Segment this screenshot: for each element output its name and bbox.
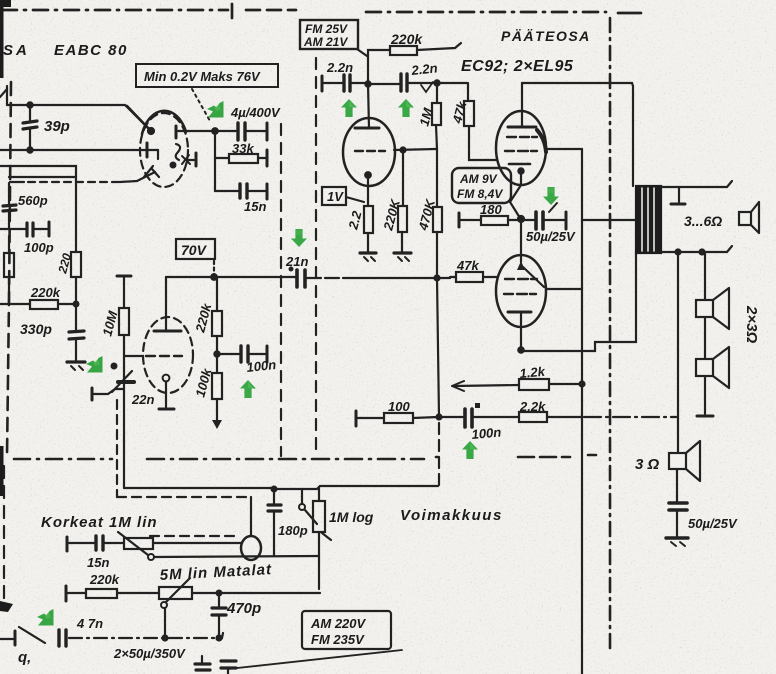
capacitor 470p: [212, 591, 261, 641]
svg-text:50µ/25V: 50µ/25V: [526, 229, 576, 244]
speaker LS2: [696, 288, 729, 329]
arrow marker 1: [207, 101, 224, 118]
speaker LS1 3...6ohm: [684, 202, 759, 233]
border frame: section divider x=316 dashed: [315, 58, 317, 456]
wire V2 grid row: [394, 148, 436, 153]
svg-text:AM 9V: AM 9V: [459, 172, 498, 186]
svg-text:Korkeat 1M lin: Korkeat 1M lin: [41, 514, 158, 531]
tube V4 EL95 upper: [496, 83, 546, 218]
svg-text:EABC 80: EABC 80: [54, 42, 128, 59]
svg-text:15n: 15n: [244, 199, 266, 214]
capacitor 21n: [285, 254, 308, 287]
speaker LS4 3ohm: [635, 441, 700, 481]
svg-text:3...6Ω: 3...6Ω: [684, 213, 722, 229]
svg-text:100: 100: [388, 399, 410, 414]
capacitor 180p: [268, 489, 308, 556]
svg-text:22n: 22n: [131, 392, 154, 407]
arrow marker 9: [37, 609, 54, 626]
svg-text:Voimakkuus: Voimakkuus: [400, 507, 503, 524]
arrow marker 7: [240, 380, 256, 398]
svg-text:FM 235V: FM 235V: [311, 632, 365, 647]
svg-text:50µ/25V: 50µ/25V: [688, 516, 738, 531]
ground symbol: [67, 362, 85, 370]
wire speaker bus x=705: [697, 252, 713, 416]
svg-text:70V: 70V: [181, 242, 208, 258]
svg-text:100n: 100n: [246, 357, 277, 375]
scan edge artifacts: [0, 0, 13, 612]
resistor 220k top: [368, 31, 461, 55]
svg-text:39p: 39p: [44, 118, 70, 135]
svg-text:330p: 330p: [20, 321, 52, 337]
wire B+ rail vertical x=582: [546, 149, 582, 674]
tube V2 EC92 triode: [343, 118, 395, 206]
arrow marker 3: [398, 99, 414, 117]
wire top-left y=105: [0, 86, 150, 153]
capacitor 100p: [0, 222, 54, 255]
resistor 1M vertical: [416, 80, 441, 149]
wire secondary top: [661, 181, 732, 204]
capacitor PSU bottom edge 2: [221, 661, 236, 674]
svg-text:Min 0.2V Maks 76V: Min 0.2V Maks 76V: [144, 69, 261, 84]
wire volume feed horizontal y=488: [124, 486, 438, 491]
svg-text:180p: 180p: [278, 523, 308, 538]
svg-text:220k: 220k: [390, 31, 423, 47]
border frame: horizontal dash-dot y=458: [14, 455, 596, 459]
capacitor 100n mid: [214, 346, 276, 375]
capacitor 100n coupling: [439, 403, 519, 442]
svg-text:AM 220V: AM 220V: [310, 616, 367, 631]
svg-text:560p: 560p: [18, 193, 48, 208]
wire signal row y=277: [166, 277, 497, 278]
resistor 47k vertical: [437, 83, 497, 160]
wire B+ top y=83: [522, 83, 633, 186]
capacitor 47n: [59, 616, 103, 646]
wire dashed x=439 lower: [438, 423, 440, 486]
resistor 220 vertical: [55, 251, 81, 331]
svg-text:SA: SA: [3, 42, 30, 59]
capacitor 15n tone: [67, 536, 124, 570]
potentiometer 1M log volume: [299, 487, 331, 589]
wire speaker bus x=678: [677, 252, 679, 453]
dashed link y=497: [117, 496, 248, 498]
svg-text:4µ/400V: 4µ/400V: [230, 105, 281, 120]
border frame: left dashed vertical: [7, 82, 11, 456]
svg-text:4 7n: 4 7n: [76, 616, 103, 631]
capacitor 15n: [215, 184, 267, 214]
capacitor 4u/400V: [215, 105, 281, 140]
dashed link y=535: [150, 535, 238, 537]
border frame: section divider x=281 dashed: [280, 124, 282, 456]
ground below 2.2: [360, 253, 376, 261]
node plate junction of V1: [176, 126, 218, 191]
resistor left edge vertical: [4, 236, 14, 304]
resistor 220k tone: [66, 586, 159, 601]
border frame: left lower dashed vertical: [3, 466, 5, 598]
transformer T1: [636, 186, 661, 253]
wire V5 plate to rail: [546, 288, 582, 290]
svg-text:1.2k: 1.2k: [519, 364, 546, 381]
svg-text:15n: 15n: [87, 555, 109, 570]
svg-text:FM 8,4V: FM 8,4V: [457, 187, 503, 201]
svg-text:FM 25V: FM 25V: [305, 22, 348, 36]
svg-text:470p: 470p: [226, 600, 261, 617]
potentiometer treble 1M: [118, 532, 241, 560]
arrow marker 5: [543, 187, 559, 205]
dashed lead into tube V1 bottom: [10, 172, 155, 182]
border frame: right dash-dot vertical: [609, 18, 612, 650]
tube V3 triode (dashed envelope): [143, 277, 193, 409]
capacitor 50u/25V upper: [521, 203, 576, 244]
capacitor 330p: [20, 321, 84, 361]
wire cathode return y=351: [521, 253, 636, 351]
pointer line to box: [228, 650, 402, 669]
wire bass wiper down: [163, 608, 168, 641]
svg-text:33k: 33k: [232, 141, 254, 156]
resistor 220k horizontal: [0, 285, 78, 309]
svg-text:AM 21V: AM 21V: [303, 35, 348, 49]
wire secondary bottom: [661, 246, 732, 255]
tube V1 internal electrodes: [127, 106, 196, 177]
annotation box AM 9V / FM 8.4V: [452, 168, 511, 203]
wire y=166 with corner at x=76: [0, 166, 76, 252]
annotation box AM 220V / FM 235V: [302, 611, 391, 649]
svg-text:2.2k: 2.2k: [519, 399, 546, 414]
speaker LS3: [696, 347, 729, 388]
svg-text:47k: 47k: [456, 258, 479, 273]
svg-text:100n: 100n: [471, 424, 502, 442]
svg-text:220k: 220k: [89, 572, 120, 587]
wire to transformer primary: [582, 219, 636, 221]
svg-text:2.2n: 2.2n: [410, 60, 438, 78]
svg-text:PÄÄTEOSA: PÄÄTEOSA: [501, 28, 591, 44]
svg-text:3 Ω: 3 Ω: [635, 456, 660, 473]
potentiometer bass 5M: [159, 578, 320, 608]
svg-text:EC92; 2×EL95: EC92; 2×EL95: [461, 58, 574, 75]
capacitor 39p: [23, 105, 70, 150]
resistor 2.2k row: [519, 399, 582, 422]
resistor 47k mid: [450, 258, 483, 282]
arrow marker 2: [341, 99, 357, 117]
arrow marker 6: [86, 356, 103, 373]
annotation box FM 25V / AM 21V: [300, 20, 367, 56]
capacitor 560p: [3, 177, 76, 229]
capacitor oval: [241, 497, 261, 560]
svg-text:21n: 21n: [285, 254, 308, 269]
resistor 2.2 cathode: [345, 206, 373, 252]
svg-text:2.2n: 2.2n: [326, 60, 353, 75]
resistor 33k: [215, 141, 267, 166]
wire dash-dot y=417 right: [584, 416, 678, 418]
resistor 100k vertical: [192, 366, 222, 429]
wire bottom y=638: [0, 627, 223, 645]
tube V5 EL95 lower: [496, 220, 546, 353]
svg-text:q‚: q‚: [18, 649, 31, 666]
svg-text:1M log: 1M log: [329, 509, 374, 525]
svg-text:180: 180: [480, 202, 502, 217]
resistor 180: [459, 202, 520, 227]
node cathode junction: [518, 216, 524, 222]
resistor 10M vertical: [99, 276, 143, 488]
border frame: top dash-dot line: [2, 4, 641, 18]
resistor 220K vertical: [380, 151, 407, 252]
wire y=556: [154, 556, 319, 557]
capacitor 2.2n right: [369, 60, 438, 92]
resistor 1.2k feedback row: [452, 364, 585, 391]
resistor 100 row: [356, 399, 438, 426]
wire long vertical x=438: [435, 276, 442, 420]
ground below electrolytic: [666, 538, 688, 546]
svg-text:220k: 220k: [30, 285, 61, 300]
svg-text:2×3Ω: 2×3Ω: [743, 305, 760, 343]
resistor 470K vertical: [415, 149, 442, 278]
svg-text:100p: 100p: [24, 240, 54, 255]
wire y=150 to tube pin: [0, 143, 158, 159]
mechanical gang dashed line: [116, 400, 118, 497]
wire plate feed V2: [365, 55, 370, 128]
annotation box Min 0.2V Maks 76V: [136, 64, 278, 121]
capacitor PSU bottom edge 1: [195, 656, 210, 670]
capacitor 50u/25V electrolytic lower: [669, 469, 738, 536]
resistor 220k vertical mid: [192, 277, 222, 373]
svg-text:1V: 1V: [327, 189, 344, 204]
svg-text:2×50µ/350V: 2×50µ/350V: [113, 646, 186, 661]
green annotation arrows: [37, 99, 559, 626]
tube V1 EABC80 triode (dashed envelope): [140, 111, 188, 187]
capacitor 2.2n left: [322, 60, 367, 91]
trimmer capacitor 22n: [92, 364, 154, 407]
arrow marker 4: [291, 229, 307, 247]
annotation box 70V: [176, 239, 217, 280]
ground below 220K: [394, 253, 411, 261]
arrow marker 8: [462, 441, 478, 459]
annotation box 1V: [322, 187, 364, 205]
